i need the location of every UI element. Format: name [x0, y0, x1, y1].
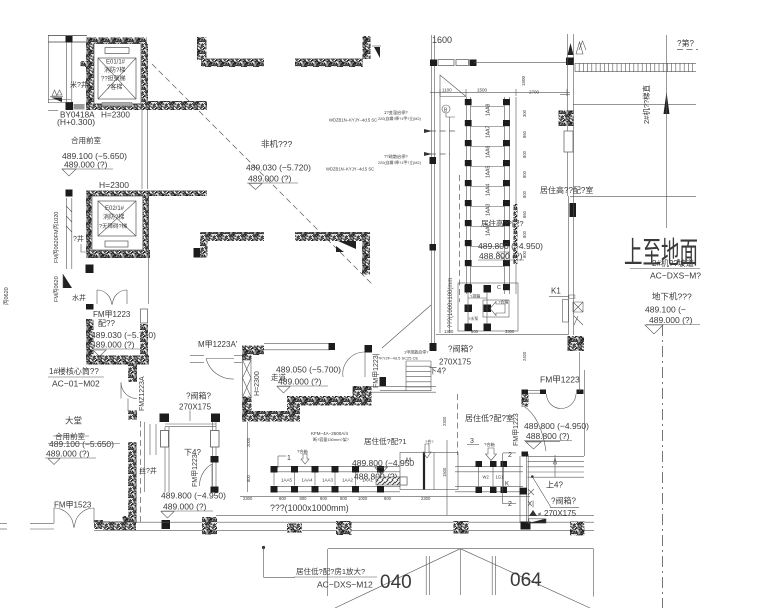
svg-text:800: 800 [300, 496, 308, 501]
wire dashed well [140, 421, 142, 522]
elevation marker core [93, 350, 106, 357]
svg-text:489.000 (?): 489.000 (?) [64, 160, 108, 170]
fire door leaf triangle [63, 274, 72, 288]
wire dims k1 bottom [436, 334, 568, 336]
wall seg A horizontal [201, 59, 264, 68]
equipment group frame [458, 283, 518, 331]
column lv a [540, 390, 546, 395]
wall corridor stub [251, 346, 264, 356]
svg-text:?合箱: ?合箱 [498, 299, 508, 305]
wall core right [140, 324, 148, 356]
svg-text:1AA4: 1AA4 [302, 478, 314, 483]
svg-text:1600: 1600 [432, 35, 452, 45]
wall lv right [522, 390, 529, 395]
door lv left swing [524, 406, 547, 451]
wire dim line horizontal top [430, 92, 570, 94]
stair rails [143, 422, 145, 492]
wall seg B horizontal [295, 59, 363, 68]
svg-text:FM甲1523: FM甲1523 [54, 501, 92, 510]
wall bottom seg6 [454, 521, 469, 534]
svg-text:?合?: ?合? [425, 438, 434, 444]
wire dim line bottom [240, 495, 530, 497]
door leaf triangles [338, 241, 356, 249]
svg-text:居住高??配?室: 居住高??配?室 [540, 185, 593, 195]
svg-text:1AA8: 1AA8 [486, 104, 492, 116]
svg-text:2700: 2700 [529, 90, 540, 95]
svg-text:2000: 2000 [246, 437, 251, 447]
stair stringer right [211, 431, 220, 448]
svg-text:1500: 1500 [477, 88, 488, 93]
wall E01 bottom [86, 104, 148, 111]
elevator E01 bottom sill [102, 103, 132, 107]
wall E02 right [143, 196, 150, 258]
stair up4 flight [528, 455, 585, 457]
wire stair bridge [165, 423, 216, 425]
svg-text:489.000 (?): 489.000 (?) [248, 174, 292, 184]
wall E01 bottom extension [148, 101, 207, 110]
svg-text:?阀箱?: ?阀箱? [448, 344, 473, 354]
column busbar top [470, 60, 477, 67]
svg-text:C: C [497, 285, 501, 291]
hbus rail bottom [272, 485, 400, 487]
wire dashed leader 2 [430, 153, 450, 155]
svg-text:1AA5: 1AA5 [486, 166, 492, 178]
svg-text:大堂: 大堂 [65, 416, 82, 426]
svg-text:E01/1#: E01/1# [106, 60, 126, 66]
wire ramp lower line [573, 104, 696, 106]
double door FM1523 [53, 508, 55, 523]
door corridor top [343, 352, 365, 377]
svg-text:?排箱: ?排箱 [470, 293, 480, 299]
vent grille [74, 104, 85, 110]
hbus tap boxes [271, 466, 278, 473]
svg-text:??疏散启停?: ??疏散启停? [384, 153, 408, 160]
wall bottom seg3 [202, 517, 217, 535]
svg-text:地下机???: 地下机??? [652, 292, 692, 302]
busbar cross wires [471, 106, 504, 108]
svg-text:1甲疏散启停?: 1甲疏散启停? [404, 349, 429, 355]
svg-text:FM甲1223: FM甲1223 [93, 310, 131, 319]
svg-text:800: 800 [522, 230, 527, 238]
svg-text:800: 800 [522, 190, 527, 198]
leader 1 [277, 456, 279, 468]
wire lv right boundary [583, 370, 585, 456]
control box with arrow [483, 300, 509, 317]
svg-text:1AA3: 1AA3 [486, 204, 492, 216]
elevation marker lv [526, 442, 541, 449]
svg-text:800: 800 [279, 496, 287, 501]
svg-text:?第?: ?第? [677, 38, 694, 48]
column right grid [566, 58, 574, 66]
wall corridor corner [287, 396, 300, 422]
shaft corridor X [243, 360, 252, 397]
wire B leader down [449, 117, 451, 333]
column at grid top-left [66, 36, 73, 43]
wire vertical grid line pair [430, 35, 432, 343]
svg-text:2300: 2300 [442, 416, 447, 426]
elevator E02 car [98, 201, 136, 236]
svg-text:3: 3 [470, 438, 474, 445]
svg-text:270X175: 270X175 [439, 358, 472, 367]
node grid square mid2 [430, 244, 437, 251]
door lv room [547, 394, 562, 409]
wall E02 bottom [86, 250, 150, 258]
column on grid [430, 60, 437, 67]
svg-text:2#机??梯直: 2#机??梯直 [641, 84, 651, 124]
door swing busbar top [440, 75, 466, 97]
svg-text:???(1000x1000mm): ???(1000x1000mm) [270, 503, 349, 513]
svg-text:AC−01−M02: AC−01−M02 [52, 379, 100, 389]
svg-text:H=2300: H=2300 [99, 180, 129, 190]
wire room divider [570, 196, 696, 198]
svg-text:FM丙0620FM丙1020: FM丙0620FM丙1020 [53, 212, 60, 263]
svg-text:489.000 (?): 489.000 (?) [278, 377, 322, 387]
svg-text:居住低?配?室: 居住低?配?室 [465, 413, 514, 423]
svg-text:?水泵: ?水泵 [468, 315, 478, 321]
wall block lv right [568, 336, 585, 351]
wire shaft right boundary [147, 198, 149, 304]
pipe well bracket [81, 244, 86, 252]
column lv b [577, 390, 584, 395]
window sill top [438, 60, 454, 66]
svg-text:1AA4: 1AA4 [486, 184, 492, 196]
svg-text:丝?井: 丝?井 [139, 466, 157, 475]
column bottom a [162, 520, 171, 529]
svg-text:3300: 3300 [505, 329, 515, 334]
svg-text:?阀箱?: ?阀箱? [186, 391, 211, 401]
fire damper glyph [573, 302, 583, 312]
column bottom b [521, 522, 531, 530]
wire left ramp wall lines [567, 34, 569, 196]
striped retaining wall band [575, 62, 696, 64]
wall bottom seg2 [103, 522, 136, 531]
elevation marker ramp [645, 325, 663, 334]
svg-text:270X175: 270X175 [179, 403, 212, 412]
svg-text:489.800 (−4.950): 489.800 (−4.950) [478, 241, 543, 251]
door stair low [199, 464, 212, 486]
svg-text:合用前室: 合用前室 [71, 135, 101, 145]
svg-text:489.100 (−: 489.100 (− [645, 305, 686, 315]
wall block ramp left [559, 111, 574, 127]
svg-text:1100: 1100 [442, 88, 452, 93]
svg-text:800: 800 [340, 496, 348, 501]
triangle marker lv [529, 510, 537, 516]
svg-text:?井: ?井 [73, 234, 84, 243]
wall corridor bottom 2 [287, 396, 371, 406]
ramp direction arrow [664, 92, 670, 114]
svg-text:水井: 水井 [72, 293, 86, 302]
wall seg C horizontal [200, 232, 264, 241]
column corridor a [329, 343, 336, 350]
svg-text:489.000 (?): 489.000 (?) [649, 315, 693, 325]
g2 rails [455, 465, 523, 467]
wall E02 top [86, 191, 207, 197]
stair left blocks [380, 377, 387, 386]
svg-text:K1: K1 [551, 287, 561, 296]
column corridor left2 [128, 411, 137, 420]
svg-text:1#楼核心筒??: 1#楼核心筒?? [49, 366, 99, 376]
svg-text:800: 800 [522, 250, 527, 258]
svg-text:配??: 配?? [98, 319, 115, 328]
wire corridor top wall [264, 343, 330, 345]
svg-text:FM丙0620: FM丙0620 [53, 276, 60, 302]
wall E02 left [86, 196, 92, 254]
wire floor edge line [216, 514, 594, 516]
svg-text:1?变温启停?: 1?变温启停? [384, 109, 408, 116]
wire top wall line [474, 62, 567, 64]
svg-text:1: 1 [287, 455, 291, 462]
wire dim extension [439, 96, 441, 333]
stair treads [149, 424, 151, 455]
svg-text:800: 800 [320, 496, 328, 501]
busbar tap-off boxes [465, 99, 472, 105]
svg-text:489.800 (−4.950): 489.800 (−4.950) [524, 421, 589, 431]
hbus rail top [272, 465, 400, 467]
svg-text:消防?梯: 消防?梯 [103, 213, 124, 221]
column ramp [570, 203, 577, 217]
tree symbol solid [568, 43, 574, 55]
bubble inner rails [425, 556, 427, 595]
svg-text:800: 800 [384, 496, 392, 501]
svg-text:1AA2: 1AA2 [342, 478, 354, 483]
svg-text:800: 800 [471, 329, 479, 334]
svg-text:1AA5: 1AA5 [281, 478, 293, 483]
bubble frame [328, 548, 594, 550]
column stair right [211, 414, 220, 423]
elevation marker lobby [48, 459, 60, 465]
svg-text:KFM−4A−2500A/4: KFM−4A−2500A/4 [311, 431, 349, 436]
wire corridor right wall [371, 386, 436, 388]
column E01 bottom-left [66, 102, 74, 110]
svg-text:断?容量150mm?架?: 断?容量150mm?架? [313, 436, 350, 442]
elevator E02 door sill [105, 241, 128, 247]
stair upper flight [406, 360, 431, 362]
svg-text:M: M [406, 458, 411, 464]
svg-text:FMZ1223A: FMZ1223A [139, 376, 146, 411]
wall seg B vertical [363, 36, 371, 59]
hbus verticals [273, 473, 275, 486]
elevator E01 car [98, 58, 136, 99]
svg-text:FM甲1223: FM甲1223 [540, 375, 580, 385]
column stair left [160, 414, 170, 423]
svg-text:064: 064 [510, 570, 542, 591]
wire door lines left [190, 355, 204, 357]
svg-text:2300: 2300 [243, 496, 253, 501]
shaft hatch small block [81, 61, 88, 67]
wire dashed leader 1 [430, 130, 456, 132]
svg-text:?KY2F−4d.5 SC25 CE: ?KY2F−4d.5 SC25 CE [378, 356, 418, 361]
wire stair bottom line [380, 390, 431, 392]
wire dim line vertical right [515, 97, 517, 294]
svg-text:1500: 1500 [442, 467, 447, 477]
cabinet M [400, 453, 458, 490]
elevation marker hv [497, 252, 509, 258]
elevation marker L [161, 512, 174, 519]
g2 boxes [476, 461, 483, 467]
wall E01 right [142, 44, 149, 104]
wire top boundary lines [48, 35, 87, 37]
wire bottom wall lines [94, 521, 594, 523]
door FMZ1223A [121, 383, 137, 399]
svg-text:1AA6: 1AA6 [486, 146, 492, 158]
svg-text:W2: W2 [483, 475, 490, 480]
door frame ramp [564, 131, 573, 152]
svg-text:上4?: 上4? [546, 481, 563, 490]
section line 2-2 [502, 453, 504, 504]
bubble apex slants [335, 549, 460, 608]
svg-text:居住低?配?1: 居住低?配?1 [364, 436, 407, 446]
svg-text:2: 2 [508, 501, 512, 508]
door frame k1 [563, 300, 569, 323]
stair stringer left [161, 431, 169, 448]
wire stair divider [247, 422, 249, 492]
svg-text:AC−DXS−M?: AC−DXS−M? [650, 271, 701, 281]
wall bottom seg1 [94, 520, 103, 529]
svg-text:489.000 (?): 489.000 (?) [91, 340, 135, 350]
svg-text:489.800 (−4.950): 489.800 (−4.950) [161, 491, 226, 501]
svg-text:270X175: 270X175 [544, 509, 577, 518]
svg-text:?无障碍?梯: ?无障碍?梯 [99, 222, 128, 230]
svg-text:1AA7: 1AA7 [486, 126, 492, 138]
wall well step [123, 516, 129, 523]
wall bottom seg5 [336, 521, 352, 535]
svg-text:860: 860 [522, 130, 527, 138]
wall corridor vert [242, 346, 252, 361]
wall core left top block [86, 304, 94, 310]
svg-text:489.000 (?): 489.000 (?) [163, 502, 207, 512]
wire door jamb lines [528, 389, 540, 391]
svg-text:489.000 (?): 489.000 (?) [46, 449, 90, 459]
leader dot detail [262, 546, 265, 549]
svg-text:居住低?配?房1放大?: 居住低?配?房1放大? [296, 566, 365, 576]
wall well left [128, 442, 137, 523]
svg-text:1300: 1300 [444, 329, 454, 334]
svg-text:?阀箱?: ?阀箱? [551, 496, 576, 506]
svg-text:1500: 1500 [521, 75, 526, 86]
pump wiring [467, 292, 469, 324]
wire wall bottom left [30, 522, 54, 524]
wall corridor vert low [242, 397, 252, 422]
column lvr left [430, 343, 437, 351]
svg-text:1000: 1000 [358, 496, 368, 501]
svg-text:800: 800 [522, 150, 527, 158]
wire below wedge [48, 99, 71, 101]
wall seg C vertical [200, 232, 208, 258]
wall hbus right block [520, 488, 528, 495]
svg-text:?合箱: ?合箱 [484, 441, 495, 448]
elevation marker [62, 169, 76, 176]
g2 wires [478, 467, 480, 487]
diagonal dashed sight line [152, 64, 372, 284]
svg-text:488.800 (?): 488.800 (?) [526, 431, 570, 441]
svg-text:H=2300: H=2300 [254, 371, 261, 396]
door FM1223A [206, 358, 234, 360]
trees symbol [52, 90, 62, 96]
node grid square mid [430, 157, 437, 164]
busbar rail right [503, 97, 505, 294]
wall strip hv [514, 204, 518, 264]
column E02 top-left [66, 190, 73, 197]
svg-text:WDZB1N−KYJY−4d.5 SC: WDZB1N−KYJY−4d.5 SC [329, 118, 377, 123]
wall seg C notch [194, 248, 201, 258]
svg-text:489.100 (−5.650): 489.100 (−5.650) [49, 439, 114, 449]
svg-text:??担架梯: ??担架梯 [101, 75, 126, 83]
svg-text:AC−DXS−M12: AC−DXS−M12 [317, 580, 373, 590]
pump boxes [465, 285, 473, 293]
ramp wedge mark [51, 98, 62, 103]
svg-text:X|: X| [528, 501, 535, 508]
wall right of corridor [353, 386, 372, 406]
wall E01 left [86, 44, 94, 107]
svg-text:WDZB1N−KYJY−4d.5 SC: WDZB1N−KYJY−4d.5 SC [326, 167, 374, 172]
svg-text:2400: 2400 [522, 351, 527, 361]
svg-text:M甲1223A': M甲1223A' [198, 340, 238, 349]
svg-text:丙0620: 丙0620 [3, 287, 10, 305]
svg-text:K: K [505, 482, 509, 488]
hatched duct [376, 477, 407, 485]
wall hbus right [519, 456, 521, 523]
svg-text:FM甲1223: FM甲1223 [191, 454, 199, 487]
stair leader [531, 475, 534, 478]
svg-text:下4?: 下4? [429, 367, 446, 376]
column stair low b [211, 487, 219, 493]
column corridor b [365, 345, 373, 353]
wall core left [86, 319, 94, 361]
svg-text:040: 040 [380, 572, 412, 593]
wall seg A vertical [197, 37, 207, 60]
wall bottom seg7 [570, 522, 585, 536]
double door water well [97, 290, 112, 305]
wall bottom seg4 [287, 524, 302, 533]
svg-text:860: 860 [522, 210, 527, 218]
tree symbols outline [576, 41, 586, 54]
svg-text:2300: 2300 [421, 496, 431, 501]
wall seg D horizontal [295, 232, 370, 241]
busbar rail left [465, 97, 467, 294]
svg-text:消防?梯: 消防?梯 [104, 66, 125, 74]
wire dashed busbar feeder [459, 175, 461, 302]
svg-text:220(自耦?降?1甲?立(M2): 220(自耦?降?1甲?立(M2) [378, 116, 422, 121]
door frame core right [141, 309, 148, 323]
svg-text:非机???: 非机??? [261, 139, 292, 149]
column corridor left [128, 364, 137, 383]
svg-text:???(1000x100(mm: ???(1000x100(mm [448, 278, 454, 328]
svg-text:220(自耦?降?1甲?立(M2): 220(自耦?降?1甲?立(M2) [378, 160, 422, 165]
louver shaft left [65, 198, 67, 269]
wall corridor bottom 1 [242, 411, 299, 422]
elevator E01 door sill [105, 48, 129, 54]
wall left stub mid [190, 101, 207, 110]
elevation marker corr [277, 387, 290, 394]
wall seg D vertical [362, 241, 370, 275]
svg-text:E02/1#: E02/1# [105, 206, 125, 212]
svg-text:2#机??坡道: 2#机??坡道 [652, 258, 694, 268]
wall block below shaft [86, 265, 94, 274]
svg-text:489.030 (−5.720): 489.030 (−5.720) [246, 163, 311, 173]
column stair low a [211, 456, 219, 463]
svg-text:300: 300 [522, 109, 527, 117]
elevation marker hb [375, 468, 387, 475]
stair understair [529, 519, 546, 524]
wire shaft divider [141, 110, 143, 189]
svg-text:米?井: 米?井 [70, 80, 88, 89]
stair direction line [382, 305, 431, 348]
svg-text:1AA3: 1AA3 [322, 478, 334, 483]
wall core bottom [86, 356, 149, 365]
label B circle [442, 105, 450, 113]
svg-text:H=2300: H=2300 [101, 111, 130, 120]
wire centerline ramp [662, 325, 664, 608]
